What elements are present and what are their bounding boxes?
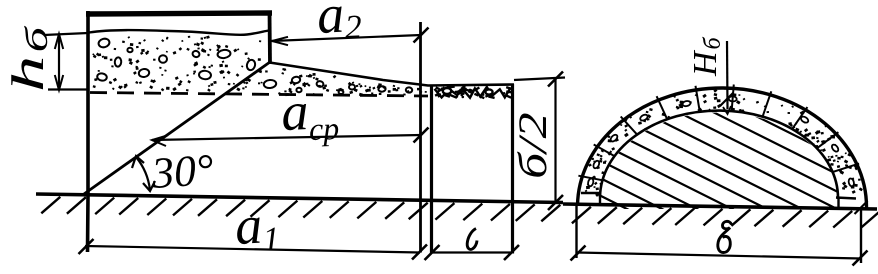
l label (script ell) [467,229,477,250]
shaft left edge / l extension [430,86,433,253]
a2/a1 common extension line [419,22,422,253]
ground line (left section) [36,194,563,203]
a2 dimension line [271,35,421,41]
dome outer arc [578,88,867,208]
h_b extension line bottom [48,88,88,90]
h_b label (rotated) [3,24,55,92]
dome inner arc [600,111,838,199]
ground line (right section) [563,204,877,209]
ground hatching (right section) [572,207,878,228]
v label (script ve) [718,221,732,252]
ballast bottom dashed line [90,93,428,97]
ballast top wavy line [89,30,269,35]
b/2 top extension line [514,78,565,81]
b/2 label (rotated) [512,112,556,179]
box top edge [86,13,272,14]
svg-text:б/2: б/2 [512,112,556,179]
v dimension line [577,253,861,259]
30 degree angle arc with arrows [132,156,155,191]
left springing step [581,193,600,204]
a1 dimension line [85,246,420,253]
svg-text:30°: 30° [149,145,215,198]
h_b dimension line [58,34,60,90]
ballast ring stipple [577,86,867,197]
H_b leader line [726,41,729,109]
shaft right edge / l extension [511,84,514,254]
embankment diagonal slope line [84,62,270,194]
ballast band over shaft (scribble texture) [435,86,513,98]
right springing step [836,198,856,209]
a_cp dimension line [152,135,421,140]
tunnel interior hatching [560,0,878,274]
H_b label (rotated) [687,35,726,77]
v extension line right [860,209,862,263]
b/2 dimension line [554,78,556,203]
ballast ring stones [587,96,855,187]
l dimension line [432,251,512,253]
ground hatching (left section) [41,197,560,222]
ballast slope line from box corner to shaft [270,63,515,86]
ballast stones (ellipses) [97,38,413,94]
ballast stipple dots [92,36,427,97]
box right edge [268,11,272,64]
h_b extension line top [44,33,88,35]
ring voussoir joints [578,85,859,182]
v extension line left [575,206,577,258]
box left edge / a1 extension line [86,11,90,252]
